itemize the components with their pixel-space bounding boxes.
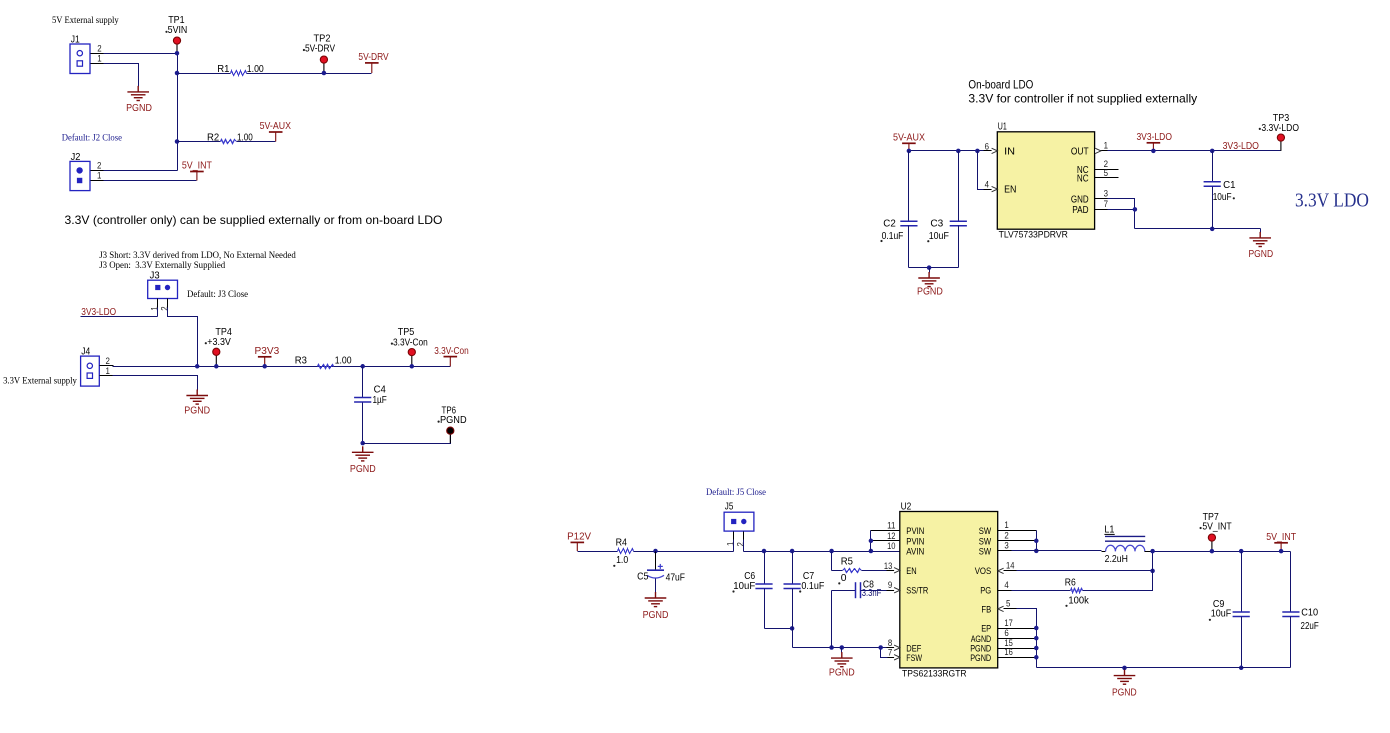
svg-text:13: 13 [884, 561, 892, 571]
svg-text:3.3V for controller if not sup: 3.3V for controller if not supplied exte… [968, 92, 1197, 106]
jumper J3 [148, 280, 178, 298]
junction at C2/port [907, 149, 912, 154]
ground PGND output [1124, 668, 1126, 671]
wire J1 pin2 to 5VIN node [104, 53, 178, 55]
capacitor C6 [764, 552, 766, 585]
U2 pin 9 SS/TR [894, 588, 900, 593]
J2 pin 1 lead [91, 180, 105, 182]
svg-text:0.1uF: 0.1uF [882, 231, 904, 242]
svg-text:1: 1 [106, 366, 110, 376]
wire R6 to output node [1083, 552, 1153, 591]
U1 pin 5 NC [1095, 177, 1119, 179]
U2 pin 12 PVIN [871, 540, 900, 542]
svg-text:1: 1 [97, 54, 101, 64]
svg-text:2: 2 [97, 161, 101, 171]
svg-text:1: 1 [97, 171, 101, 181]
svg-text:4: 4 [1004, 580, 1008, 590]
svg-text:J5: J5 [725, 502, 734, 513]
svg-text:PGND: PGND [643, 610, 669, 621]
connector J1 [70, 44, 90, 74]
ground PGND under C4 [352, 446, 374, 461]
capacitor C2 [908, 151, 910, 222]
svg-text:1: 1 [1004, 520, 1008, 530]
junction C4 bottom [360, 441, 365, 446]
svg-text:22uF: 22uF [1301, 621, 1319, 632]
IC U1 TLV75733PDRVR body [997, 132, 1094, 229]
testpoint TP1 5VIN [176, 44, 178, 54]
wire J5 pin2 to U2 rail [744, 551, 900, 553]
ground PGND under C5 [645, 592, 667, 607]
wire PG to R6 [1012, 590, 1071, 592]
svg-text:PGND: PGND [126, 103, 152, 114]
U2 pin 15 PGND [998, 648, 1037, 650]
wire P12V to R4 [578, 551, 618, 553]
U2 pin 13 EN [894, 568, 900, 573]
port P3V3 [258, 357, 272, 367]
U2 pin 2 SW [998, 540, 1037, 542]
svg-text:8: 8 [888, 638, 892, 648]
resistor R5 [831, 552, 833, 571]
svg-text:5V-AUX: 5V-AUX [260, 121, 291, 132]
svg-text:C2: C2 [883, 219, 896, 230]
svg-text:2.2uH: 2.2uH [1105, 554, 1128, 565]
svg-text:3: 3 [1004, 541, 1008, 551]
svg-text:J3: J3 [150, 271, 160, 282]
junction at EN branch [975, 149, 980, 154]
junction SW3 [1034, 549, 1039, 554]
svg-text:P3V3: P3V3 [255, 346, 280, 357]
svg-text:R6: R6 [1065, 578, 1076, 589]
svg-text:R1: R1 [217, 64, 229, 75]
svg-text:FB: FB [981, 604, 991, 615]
U2 pin 7 FSW [894, 655, 900, 660]
inductor L1 [998, 550, 1013, 552]
svg-text:9: 9 [888, 580, 892, 590]
junction at P3V3 [262, 364, 267, 369]
wire lower ground rail to U2 DEF [793, 647, 887, 649]
resistor R4 [618, 549, 634, 554]
jumper J5 [724, 512, 754, 531]
junction at R1 branch [175, 71, 180, 76]
port P12V [571, 542, 585, 551]
svg-text:10uF: 10uF [1213, 192, 1232, 203]
svg-text:47uF: 47uF [666, 572, 685, 583]
testpoint TP7 5V_INT [1211, 541, 1213, 552]
svg-text:PVIN: PVIN [906, 525, 924, 536]
wire C4 bottom to TP6 [363, 434, 451, 444]
svg-text:PGND: PGND [970, 652, 991, 663]
svg-text:1µF: 1µF [373, 395, 387, 406]
svg-text:VOS: VOS [975, 565, 992, 576]
capacitor C7 [792, 552, 794, 585]
svg-text:2: 2 [1004, 531, 1008, 541]
testpoint TP3 3.3V-LDO [1280, 141, 1282, 151]
IC U2 TPS62133RGTR body [900, 512, 998, 668]
svg-text:100k: 100k [1068, 595, 1089, 606]
resistor R6 [1071, 589, 1083, 593]
svg-text:10: 10 [887, 541, 895, 551]
svg-text:R3: R3 [295, 356, 307, 367]
connector J2 [70, 161, 90, 190]
testpoint TP4 +3.3V [215, 355, 217, 367]
svg-text:U1: U1 [998, 122, 1007, 133]
wire J5 pin1 down [733, 532, 735, 541]
svg-text:OUT: OUT [1071, 146, 1089, 157]
svg-text:2: 2 [736, 542, 746, 546]
capacitor C5 polarized [655, 552, 657, 571]
svg-text:0: 0 [841, 573, 847, 584]
wire J4 pin1 to ground [113, 376, 198, 391]
svg-text:C3: C3 [930, 219, 943, 230]
junction ground stub on rail [1122, 666, 1127, 671]
svg-text:17: 17 [1004, 618, 1012, 628]
capacitor C3 [958, 151, 960, 222]
junction SW2 [1034, 539, 1039, 544]
wire C6 bottom to C7 [765, 628, 793, 630]
junction at R5 branch [829, 549, 834, 554]
U2 pin 6 AGND [998, 638, 1037, 640]
junction PGND16 [1034, 655, 1039, 660]
svg-text:J4: J4 [81, 347, 90, 358]
wire C5 to ground [655, 579, 657, 594]
junction PVIN 12 [869, 539, 874, 544]
port 3.3V-Con [444, 357, 458, 367]
svg-text:4: 4 [985, 180, 989, 190]
svg-text:FSW: FSW [906, 652, 922, 663]
junction FSW/DEF [878, 645, 883, 650]
wire bottom output ground rail [1037, 667, 1291, 669]
U1 pin 2 NC [1095, 169, 1119, 171]
junction at C1 [1210, 149, 1215, 154]
J1 pin 1 lead [91, 63, 105, 65]
port 5V-AUX at LDO [902, 143, 916, 151]
junction GND/PAD [1133, 207, 1138, 212]
wire FB to AGND bundle [1017, 609, 1037, 629]
svg-text:SW: SW [979, 546, 992, 557]
junction at TP1/J1 pin2 [175, 51, 180, 56]
junction port 5V_INT [1279, 549, 1284, 554]
junction TP7 [1210, 549, 1215, 554]
wire J3 pin1 down to 3V3-LDO [157, 299, 159, 309]
junction at TP2 [322, 71, 327, 76]
junction at C4 [360, 364, 365, 369]
junction C6/C7 bottom [790, 626, 795, 631]
port 5V_INT output [1274, 543, 1288, 551]
wire EN branch [978, 151, 984, 190]
svg-text:TLV75733PDRVR: TLV75733PDRVR [999, 229, 1068, 240]
svg-text:C1: C1 [1223, 180, 1236, 191]
svg-text:5V-DRV: 5V-DRV [358, 52, 388, 63]
svg-text:10uF: 10uF [733, 581, 755, 592]
svg-text:U2: U2 [901, 501, 912, 512]
U2 pin 17 EP [998, 628, 1037, 630]
svg-text:0.1uF: 0.1uF [801, 581, 824, 592]
svg-text:GND: GND [1071, 194, 1089, 205]
ground PGND under C2/C3 [918, 272, 940, 287]
svg-text:11: 11 [887, 521, 895, 531]
svg-text:PAD: PAD [1072, 205, 1088, 216]
port 5V_INT [190, 172, 204, 181]
junction L1 output [1150, 549, 1155, 554]
svg-text:R4: R4 [616, 538, 628, 549]
svg-text:NC: NC [1077, 173, 1089, 184]
svg-text:J3 Open: 3.3V Externally Supp: J3 Open: 3.3V Externally Supplied [99, 260, 225, 271]
wire AGND bundle vertical [1036, 609, 1038, 668]
svg-text:PG: PG [980, 585, 991, 596]
J4 pin 1 lead [100, 375, 114, 377]
U1 pin 7 PAD [1095, 209, 1109, 211]
svg-text:1: 1 [150, 306, 160, 310]
svg-text:5V-AUX: 5V-AUX [893, 133, 925, 144]
wire J4 pin2 to 3.3V rail [113, 366, 198, 368]
testpoint TP5 3.3V-Con [411, 355, 413, 366]
wire LDO ground rail [1135, 228, 1261, 230]
junction VOS [1150, 569, 1155, 574]
wire U1 OUT to TP3 [1108, 150, 1281, 152]
wire J2 pin2 to 5VIN bus [104, 170, 178, 172]
ground PGND under J4 [186, 390, 208, 405]
capacitor C4 [362, 367, 364, 398]
junction at TP4 [214, 364, 219, 369]
svg-text:7: 7 [1104, 199, 1108, 209]
svg-text:C10: C10 [1301, 608, 1318, 619]
junction C9 bottom [1239, 666, 1244, 671]
wire J3 pin2 to 3.3V node [167, 299, 169, 309]
U2 pin 1 SW [998, 530, 1037, 532]
wire R1 to 5V-DRV port [247, 73, 372, 75]
capacitor C8 [831, 591, 833, 648]
svg-text:5VIN: 5VIN [168, 25, 188, 36]
svg-text:R2: R2 [207, 132, 219, 143]
svg-text:5V-DRV: 5V-DRV [305, 43, 335, 54]
junction at TP5 [410, 364, 415, 369]
ground PGND under C6/C7 [841, 648, 843, 653]
svg-text:PGND: PGND [184, 405, 210, 416]
wire U1 GND/PAD to ground rail [1095, 198, 1109, 200]
svg-text:SS/TR: SS/TR [906, 585, 928, 596]
junction C9 [1239, 549, 1244, 554]
junction ground rail [927, 265, 932, 270]
svg-text:3.3V External supply: 3.3V External supply [3, 375, 77, 386]
svg-text:R5: R5 [841, 557, 853, 568]
svg-text:3.3V-LDO: 3.3V-LDO [1261, 123, 1299, 134]
svg-text:3V3-LDO: 3V3-LDO [1136, 132, 1172, 143]
U2 pin 8 DEF [894, 645, 900, 650]
svg-text:3.3V LDO: 3.3V LDO [1295, 190, 1369, 212]
U2 pin 11 PVIN [871, 530, 900, 532]
wire R2 to 5V-AUX port [237, 141, 276, 143]
wire J2 pin1 to 5V_INT port [104, 180, 197, 182]
junction C1 bottom [1210, 227, 1215, 232]
svg-text:1.0: 1.0 [616, 555, 628, 566]
svg-text:TP5: TP5 [398, 327, 415, 338]
svg-text:10uF: 10uF [1211, 609, 1231, 620]
svg-text:5V_INT: 5V_INT [1266, 532, 1296, 543]
svg-text:5V External supply: 5V External supply [52, 15, 119, 26]
svg-text:C5: C5 [637, 572, 649, 583]
svg-text:L1: L1 [1104, 524, 1114, 535]
wire 5VIN vertical bus [177, 54, 179, 171]
svg-text:3.3V (controller only) can be: 3.3V (controller only) can be supplied e… [65, 213, 443, 227]
ground PGND under J1 [127, 86, 149, 101]
svg-text:EN: EN [906, 565, 916, 576]
svg-text:PGND: PGND [1112, 688, 1137, 699]
junction at C7 [790, 549, 795, 554]
J4 pin 2 lead [100, 365, 114, 367]
svg-text:2: 2 [97, 43, 101, 53]
svg-text:PGND: PGND [917, 287, 943, 298]
wire J1 pin1 to ground [104, 64, 139, 87]
port 5V-DRV [365, 63, 379, 73]
svg-text:1: 1 [1104, 141, 1108, 151]
svg-text:5: 5 [1104, 168, 1108, 178]
svg-text:6: 6 [1004, 628, 1008, 638]
svg-text:Default: J5 Close: Default: J5 Close [706, 487, 766, 498]
svg-text:6: 6 [985, 141, 989, 151]
wire PVIN vertical [870, 531, 872, 552]
U2 pin 3 SW [998, 550, 1013, 552]
svg-text:PGND: PGND [829, 668, 855, 679]
svg-text:3: 3 [1104, 188, 1108, 198]
U2 pin 16 PGND [998, 657, 1037, 659]
svg-text:5: 5 [1006, 599, 1010, 609]
svg-text:PGND: PGND [1249, 249, 1274, 260]
connector J4 [81, 356, 100, 386]
svg-text:SW: SW [979, 525, 992, 536]
capacitor C10 [1290, 552, 1292, 613]
svg-text:P12V: P12V [567, 532, 591, 543]
junction AGND [1034, 636, 1039, 641]
svg-text:3V3-LDO: 3V3-LDO [1223, 141, 1259, 152]
port 3V3-LDO on OUT [1147, 143, 1161, 151]
capacitor C9 [1241, 552, 1243, 613]
svg-text:10uF: 10uF [929, 231, 949, 242]
junction EP [1034, 626, 1039, 631]
svg-text:J2: J2 [71, 152, 81, 163]
svg-text:1.00: 1.00 [335, 356, 352, 367]
port 5V-AUX [269, 132, 283, 142]
U1 pin 3 GND [1095, 198, 1109, 200]
svg-text:J1: J1 [71, 35, 80, 46]
U2 pin 4 PG [998, 590, 1013, 592]
svg-text:3.3V-Con: 3.3V-Con [434, 346, 468, 357]
resistor R2 [178, 141, 221, 143]
svg-text:On-board LDO: On-board LDO [968, 78, 1033, 92]
junction at port 3V3-LDO [1151, 149, 1156, 154]
svg-text:12: 12 [887, 531, 895, 541]
testpoint TP2 5V-DRV [323, 63, 325, 73]
svg-text:+3.3V: +3.3V [207, 337, 231, 348]
U1 pin 4 EN [992, 186, 998, 191]
junction at R2 branch [175, 139, 180, 144]
wire J5 pin2 down [743, 532, 745, 541]
svg-text:Default: J2 Close: Default: J2 Close [62, 132, 122, 143]
svg-text:TPS62133RGTR: TPS62133RGTR [902, 668, 967, 679]
svg-text:Default: J3 Close: Default: J3 Close [187, 289, 248, 300]
svg-text:PGND: PGND [350, 464, 376, 475]
U1 pin 1 OUT [1095, 150, 1109, 152]
wire SW bundle vertical [1036, 531, 1038, 551]
ground PGND LDO [1260, 229, 1262, 233]
junction at C6 [762, 549, 767, 554]
testpoint TP6 PGND [449, 434, 451, 443]
wire 3.3V rail [198, 366, 451, 368]
svg-text:2: 2 [106, 356, 110, 366]
resistor R1 [178, 73, 231, 75]
wire R4 to rail [634, 551, 734, 553]
junction ground stub [840, 645, 845, 650]
svg-text:IN: IN [1004, 146, 1015, 157]
junction J3 drop on rail [195, 364, 200, 369]
capacitor C1 [1212, 151, 1214, 182]
wire L1 to output rail [1145, 551, 1160, 553]
svg-text:3.3V-Con: 3.3V-Con [393, 337, 428, 348]
svg-text:EN: EN [1004, 185, 1016, 196]
wire 5V-AUX to U1 IN [909, 150, 984, 152]
svg-text:16: 16 [1004, 647, 1012, 657]
wire FSW to rail [887, 657, 900, 659]
U2 pin 5 FB [998, 606, 1004, 611]
wire 3V3-LDO [81, 316, 158, 318]
svg-text:5V_INT: 5V_INT [182, 161, 212, 172]
wire VOS to output node [1017, 570, 1153, 572]
J2 pin 2 lead [91, 170, 105, 172]
svg-text:5V_INT: 5V_INT [1202, 522, 1232, 533]
junction PGND15 [1034, 646, 1039, 651]
svg-text:AVIN: AVIN [906, 546, 924, 557]
svg-text:PGND: PGND [440, 415, 467, 426]
U2 pin 14 VOS [998, 568, 1004, 573]
U1 pin 6 IN [992, 148, 998, 153]
junction C8 branch on rail [829, 645, 834, 650]
junction at PVIN vertical [869, 549, 874, 554]
junction at C3 [956, 149, 961, 154]
svg-text:14: 14 [1006, 560, 1014, 570]
svg-text:3.3nF: 3.3nF [862, 588, 882, 599]
junction at C5 [653, 549, 658, 554]
J1 pin 2 lead [91, 53, 105, 55]
wire C2/C3 ground rail [909, 267, 959, 269]
svg-text:7: 7 [888, 648, 892, 658]
